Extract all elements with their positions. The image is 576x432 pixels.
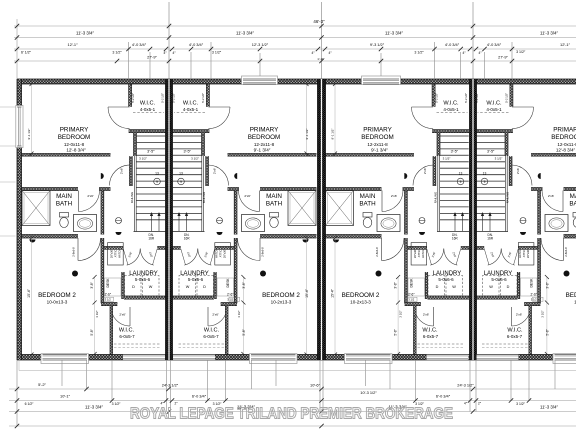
svg-text:12′-1″: 12′-1″	[68, 42, 79, 47]
svg-text:DESK: DESK	[530, 278, 534, 288]
svg-text:27′-9″: 27′-9″	[498, 56, 508, 60]
svg-text:3 1/2″: 3 1/2″	[191, 157, 199, 161]
svg-text:3′-5″: 3′-5″	[487, 150, 495, 154]
svg-text:DESK: DESK	[226, 278, 230, 288]
svg-text:9′-1 1/2″: 9′-1 1/2″	[330, 129, 334, 140]
svg-text:5′-2 1/2″: 5′-2 1/2″	[475, 93, 479, 103]
svg-text:5′-2 1/2″: 5′-2 1/2″	[172, 93, 176, 103]
svg-text:10′-1″: 10′-1″	[60, 393, 71, 398]
svg-text:3′-8″: 3′-8″	[393, 281, 397, 288]
svg-text:24′-3 1/2″: 24′-3 1/2″	[162, 383, 179, 388]
svg-text:ATTIC: ATTIC	[114, 250, 118, 258]
svg-text:W.I.C.: W.I.C.	[507, 327, 523, 333]
svg-text:HATCH: HATCH	[215, 249, 219, 258]
svg-text:W: W	[452, 285, 456, 289]
svg-text:BEDROOM 2: BEDROOM 2	[262, 292, 300, 299]
svg-text:2′x6′: 2′x6′	[516, 313, 523, 317]
svg-text:11′-3 3/4″: 11′-3 3/4″	[540, 405, 558, 410]
svg-text:9: 9	[484, 180, 486, 184]
svg-text:2-8x6-8: 2-8x6-8	[261, 247, 265, 257]
svg-text:3′-8″: 3′-8″	[546, 281, 550, 288]
svg-text:W.I.C.: W.I.C.	[204, 327, 220, 333]
svg-text:5′-2 1/2″: 5′-2 1/2″	[201, 93, 205, 103]
svg-text:3′-5″: 3′-5″	[147, 150, 155, 154]
svg-text:15′-4″: 15′-4″	[27, 288, 31, 297]
svg-text:RAILING: RAILING	[434, 191, 438, 203]
svg-text:BATH: BATH	[359, 201, 376, 208]
svg-text:D: D	[132, 285, 135, 289]
svg-text:13: 13	[179, 172, 183, 176]
svg-text:24′-3 1/2″: 24′-3 1/2″	[457, 383, 474, 388]
svg-text:BEDROOM 2: BEDROOM 2	[566, 292, 576, 299]
svg-text:RAILING: RAILING	[130, 191, 134, 203]
svg-text:4′-0 3/4″: 4′-0 3/4″	[189, 42, 204, 47]
svg-text:BEDROOM 2: BEDROOM 2	[38, 292, 76, 299]
svg-text:W: W	[149, 285, 153, 289]
svg-text:10′-3 1/2″: 10′-3 1/2″	[360, 390, 377, 395]
svg-text:13: 13	[459, 172, 463, 176]
svg-text:DESK: DESK	[106, 278, 110, 288]
svg-text:2′x6′: 2′x6′	[516, 168, 520, 175]
svg-text:W.I.C.: W.I.C.	[486, 101, 502, 107]
svg-text:20″x30″: 20″x30″	[526, 249, 530, 258]
svg-text:11′-3 3/4″: 11′-3 3/4″	[76, 30, 94, 35]
svg-text:13: 13	[155, 172, 159, 176]
svg-text:2′-6″: 2′-6″	[105, 292, 112, 296]
svg-text:BATH: BATH	[569, 201, 576, 208]
svg-text:ROYAL LEPAGE TRILAND PREMIER B: ROYAL LEPAGE TRILAND PREMIER BROKERAGE	[130, 406, 453, 423]
svg-text:6-0x5-7: 6-0x5-7	[507, 334, 523, 339]
svg-text:27′-9″: 27′-9″	[147, 56, 157, 60]
svg-text:3 1/2: 3 1/2	[531, 298, 537, 302]
svg-text:2′x6′: 2′x6′	[87, 194, 94, 198]
svg-text:ATTIC: ATTIC	[219, 250, 223, 258]
svg-text:9′-1 3/4″: 9′-1 3/4″	[371, 148, 388, 153]
svg-text:2-8x6-8: 2-8x6-8	[564, 247, 568, 257]
svg-text:MAIN: MAIN	[266, 193, 282, 200]
svg-text:RAILING: RAILING	[202, 191, 206, 203]
svg-text:4-0x5-1: 4-0x5-1	[486, 107, 502, 112]
svg-text:9′-1 1/2″: 9′-1 1/2″	[27, 129, 31, 140]
svg-text:13: 13	[483, 172, 487, 176]
svg-text:RAILING: RAILING	[505, 191, 509, 203]
svg-text:3 1/2″: 3 1/2″	[516, 402, 526, 406]
svg-text:2′x6′: 2′x6′	[423, 168, 427, 175]
svg-text:3 1/2″: 3 1/2″	[112, 402, 122, 406]
svg-text:5′-8″: 5′-8″	[546, 328, 550, 335]
svg-text:3 1/2″: 3 1/2″	[495, 157, 503, 161]
svg-text:20″x30″: 20″x30″	[413, 249, 417, 258]
svg-text:2′x6′: 2′x6′	[423, 313, 430, 317]
svg-text:6-0x5-7: 6-0x5-7	[119, 334, 135, 339]
svg-text:W.I.C.: W.I.C.	[183, 101, 199, 107]
svg-text:4-0x5-1: 4-0x5-1	[443, 107, 459, 112]
svg-text:4-0x5-1: 4-0x5-1	[183, 107, 199, 112]
svg-text:2′x6′: 2′x6′	[244, 194, 251, 198]
svg-text:4-0x5-1: 4-0x5-1	[140, 107, 156, 112]
svg-text:DESK: DESK	[410, 278, 414, 288]
svg-text:W.I.C.: W.I.C.	[443, 101, 459, 107]
svg-text:11′-3 3/4″: 11′-3 3/4″	[385, 30, 403, 35]
svg-text:BEDROOM: BEDROOM	[248, 134, 281, 141]
svg-text:2-8x6-8: 2-8x6-8	[72, 247, 76, 257]
svg-text:12-2x11-8: 12-2x11-8	[254, 142, 275, 147]
svg-text:16R: 16R	[452, 237, 459, 241]
svg-text:2′x6′: 2′x6′	[120, 168, 124, 175]
svg-text:ATTIC: ATTIC	[522, 250, 526, 258]
svg-text:12′-1″: 12′-1″	[560, 42, 571, 47]
svg-text:ATTIC: ATTIC	[417, 250, 421, 258]
svg-text:10-0x13-3: 10-0x13-3	[47, 299, 68, 304]
svg-text:3 1/2″: 3 1/2″	[237, 310, 241, 317]
svg-text:6′ 1/2″: 6′ 1/2″	[21, 51, 32, 55]
svg-text:12′-8 3/4″: 12′-8 3/4″	[556, 148, 576, 153]
svg-text:11′-3 3/4″: 11′-3 3/4″	[236, 30, 254, 35]
svg-text:5′-2 1/2″: 5′-2 1/2″	[464, 93, 468, 103]
svg-text:D: D	[203, 285, 206, 289]
svg-text:PRIMARY: PRIMARY	[250, 127, 279, 134]
svg-text:11′-3 3/4″: 11′-3 3/4″	[540, 30, 558, 35]
svg-text:6′-0 3/4″: 6′-0 3/4″	[192, 394, 207, 399]
svg-text:3 1/2″: 3 1/2″	[414, 51, 424, 55]
svg-text:D: D	[507, 285, 510, 289]
svg-text:2′x6′: 2′x6′	[212, 313, 219, 317]
svg-text:5-0x6-6: 5-0x6-6	[438, 277, 454, 282]
svg-text:BEDROOM 2: BEDROOM 2	[342, 292, 380, 299]
svg-text:9: 9	[460, 180, 462, 184]
svg-text:16R: 16R	[487, 237, 494, 241]
svg-text:HATCH: HATCH	[518, 249, 522, 258]
svg-text:2′x6′: 2′x6′	[391, 194, 398, 198]
svg-text:3′-8″: 3′-8″	[90, 281, 94, 288]
svg-text:3 1/2″: 3 1/2″	[95, 310, 99, 317]
svg-text:BATH: BATH	[266, 201, 283, 208]
svg-text:4′-0 3/4″: 4′-0 3/4″	[132, 42, 147, 47]
svg-text:MAIN: MAIN	[56, 193, 72, 200]
svg-text:12-2x11-8: 12-2x11-8	[367, 142, 388, 147]
svg-text:2′-6″: 2′-6″	[227, 292, 234, 296]
svg-text:3 1/2″: 3 1/2″	[443, 157, 451, 161]
svg-text:11′-3 3/4″: 11′-3 3/4″	[85, 405, 103, 410]
svg-text:12-0x11-8: 12-0x11-8	[64, 142, 85, 147]
svg-text:6-0x5-7: 6-0x5-7	[423, 334, 439, 339]
svg-text:3 1/2″: 3 1/2″	[139, 157, 147, 161]
svg-text:10-2x13-3: 10-2x13-3	[271, 299, 292, 304]
svg-text:3′-8″: 3′-8″	[242, 281, 246, 288]
svg-text:MAIN: MAIN	[360, 193, 376, 200]
svg-text:3 1/2″: 3 1/2″	[399, 310, 403, 317]
svg-text:MAIN: MAIN	[570, 193, 576, 200]
svg-text:3 1/2: 3 1/2	[105, 298, 111, 302]
svg-text:9: 9	[180, 180, 182, 184]
svg-text:6 1/2″: 6 1/2″	[25, 402, 35, 406]
svg-text:3′-5″: 3′-5″	[451, 150, 459, 154]
svg-text:2′x6′: 2′x6′	[548, 194, 555, 198]
svg-text:W.I.C.: W.I.C.	[119, 327, 135, 333]
svg-text:5′-2 1/2″: 5′-2 1/2″	[435, 93, 439, 103]
svg-text:2′x6′: 2′x6′	[119, 313, 126, 317]
svg-text:16R: 16R	[184, 237, 191, 241]
svg-text:20″x30″: 20″x30″	[110, 249, 114, 258]
svg-text:BATH: BATH	[56, 201, 73, 208]
svg-text:3′-5″: 3′-5″	[184, 150, 192, 154]
svg-text:12′-8 3/4″: 12′-8 3/4″	[66, 148, 86, 153]
svg-text:5′-2″: 5′-2″	[38, 382, 46, 387]
svg-text:4′-0 3/4″: 4′-0 3/4″	[487, 42, 502, 47]
svg-text:3 1/2″: 3 1/2″	[541, 310, 545, 317]
svg-text:12-0x11-8: 12-0x11-8	[557, 142, 576, 147]
svg-text:9′-1 1/2″: 9′-1 1/2″	[305, 129, 309, 140]
svg-text:12′-3 1/2″: 12′-3 1/2″	[252, 42, 269, 47]
svg-text:5′-8″: 5′-8″	[242, 328, 246, 335]
svg-text:2′-6″: 2′-6″	[408, 292, 415, 296]
svg-text:3 1/2″: 3 1/2″	[516, 50, 526, 54]
svg-text:9′-3 1/2″: 9′-3 1/2″	[370, 42, 385, 47]
svg-text:3 1/2: 3 1/2	[227, 298, 233, 302]
svg-text:5′-8″: 5′-8″	[90, 328, 94, 335]
svg-text:BEDROOM: BEDROOM	[551, 134, 576, 141]
svg-text:BEDROOM: BEDROOM	[58, 134, 91, 141]
svg-text:2′x6′: 2′x6′	[213, 168, 217, 175]
svg-text:15′-4″: 15′-4″	[330, 288, 334, 297]
svg-text:6-0x5-7: 6-0x5-7	[203, 334, 219, 339]
svg-text:3 1/2″: 3 1/2″	[212, 51, 222, 55]
svg-text:15′-4″: 15′-4″	[305, 288, 309, 297]
svg-text:4′-0 3/4″: 4′-0 3/4″	[445, 42, 460, 47]
svg-text:5′-2 1/2″: 5′-2 1/2″	[160, 93, 164, 103]
svg-text:10-2x13-3: 10-2x13-3	[350, 299, 371, 304]
svg-text:W: W	[186, 285, 190, 289]
svg-text:5-0x6-6: 5-0x6-6	[188, 277, 204, 282]
svg-text:W.I.C.: W.I.C.	[140, 101, 156, 107]
svg-text:16R: 16R	[148, 237, 155, 241]
svg-text:2′-6″: 2′-6″	[531, 292, 538, 296]
svg-text:10′-6″: 10′-6″	[310, 383, 321, 388]
svg-text:3 1/2″: 3 1/2″	[112, 51, 122, 55]
svg-text:46′-3″: 46′-3″	[313, 19, 325, 24]
svg-text:5′-2 1/2″: 5′-2 1/2″	[131, 93, 135, 103]
svg-text:9′-1 3/4″: 9′-1 3/4″	[254, 148, 271, 153]
svg-text:HATCH: HATCH	[118, 249, 122, 258]
svg-text:5′-2 1/2″: 5′-2 1/2″	[505, 93, 509, 103]
svg-text:5′-8″: 5′-8″	[393, 328, 397, 335]
svg-text:W: W	[489, 285, 493, 289]
svg-text:HATCH: HATCH	[421, 249, 425, 258]
svg-text:5-0x6-6: 5-0x6-6	[135, 277, 151, 282]
svg-text:PRIMARY: PRIMARY	[363, 127, 392, 134]
svg-text:BEDROOM: BEDROOM	[361, 134, 394, 141]
svg-text:20″x30″: 20″x30″	[223, 249, 227, 258]
svg-text:3 1/2: 3 1/2	[408, 298, 414, 302]
svg-text:9: 9	[156, 180, 158, 184]
svg-text:PRIMARY: PRIMARY	[553, 127, 576, 134]
svg-text:2-8x6-8: 2-8x6-8	[375, 247, 379, 257]
svg-text:PRIMARY: PRIMARY	[60, 127, 89, 134]
svg-text:D: D	[436, 285, 439, 289]
svg-text:5-0x6-6: 5-0x6-6	[491, 277, 507, 282]
svg-text:6′-0 3/4″: 6′-0 3/4″	[436, 394, 451, 399]
svg-text:W.I.C.: W.I.C.	[422, 327, 438, 333]
svg-text:1′-11″: 1′-11″	[317, 57, 324, 61]
